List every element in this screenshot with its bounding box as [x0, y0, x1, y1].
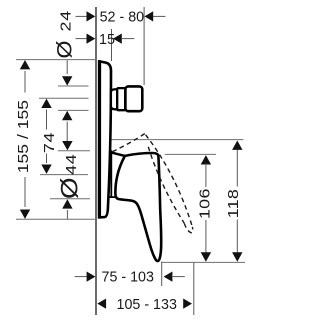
dimension Ø44: [55, 141, 83, 219]
wire tick rosette bottom y=198.8: [50, 198, 90, 200]
wire tick plate bottom y=219.3: [16, 218, 96, 220]
handle neck top edge: [109, 152, 125, 156]
dashed lever raised position top edge: [113, 134, 146, 152]
dimension 74: [41, 99, 57, 174]
dimension 155/155 left: [16, 60, 32, 219]
svg-text:118: 118: [225, 189, 241, 219]
spout connector neck: [111, 89, 117, 109]
svg-text:44: 44: [64, 154, 80, 175]
svg-text:74: 74: [42, 132, 58, 153]
dimension 106: [197, 155, 213, 262]
dimension Ø24: [53, 10, 77, 141]
wire tick dashed lever top y=139.8: [112, 139, 244, 141]
escutcheon plate (side view): [99, 61, 111, 217]
dashed lever raised position outer edge: [146, 135, 193, 227]
svg-text:75 - 103: 75 - 103: [102, 270, 155, 286]
spout connector body: [125, 86, 142, 111]
spout connector ring: [117, 88, 125, 110]
svg-text:Ø: Ø: [55, 177, 83, 199]
handle rosette edge line: [110, 150, 112, 196]
svg-text:105 - 133: 105 - 133: [117, 297, 177, 313]
svg-text:24: 24: [58, 10, 74, 31]
wire tick rosette top y=150.8: [58, 150, 90, 152]
svg-text:Ø: Ø: [53, 41, 77, 59]
dimension 15 top: [76, 32, 135, 48]
svg-text:155 / 155: 155 / 155: [16, 100, 32, 173]
wire extension line x=143.5 (spout tip): [143, 7, 145, 85]
svg-text:15: 15: [99, 32, 115, 48]
wire extension line x=111 (plate face): [111, 29, 113, 61]
wire wall extension line x=96: [95, 7, 97, 315]
wire tick plate top y=59.6: [16, 59, 96, 61]
dashed lever tip: [184, 223, 192, 232]
wire tick spout bottom y=110.4: [58, 109, 89, 111]
wire extension line x=193.8: [193, 262, 195, 315]
wire tick handle axis y=174.3: [40, 174, 88, 176]
wire extension line x=161.7 (handle tip): [161, 262, 163, 287]
dimension 105-133 bottom: [97, 297, 192, 313]
dashed lever raised position inner edge: [148, 147, 184, 224]
dimension 75-103 bottom: [75, 270, 185, 286]
wire tick lever top y=153.3: [165, 153, 216, 155]
svg-text:106: 106: [197, 188, 213, 219]
dimension 52-80 top: [76, 10, 166, 26]
wire tick bottom plane y=262.4: [162, 261, 245, 263]
wire tick spout top y=86: [58, 85, 89, 87]
handle rosette bottom edge: [109, 196, 116, 198]
svg-text:52 - 80: 52 - 80: [100, 10, 145, 26]
dimension 118: [225, 141, 242, 262]
handle body and lever: [115, 153, 161, 261]
plate left edge: [98, 60, 101, 218]
wire tick spout axis y=98.2: [39, 97, 89, 99]
